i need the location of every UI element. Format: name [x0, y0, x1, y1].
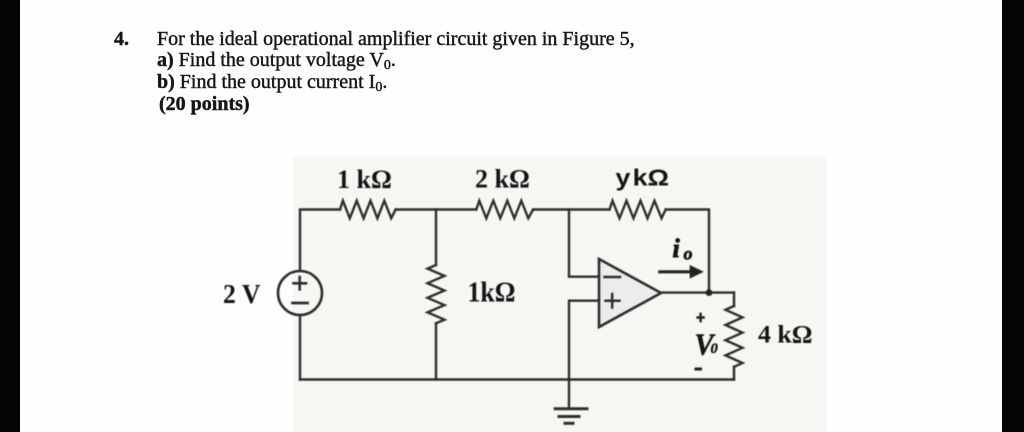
svg-text:4 kΩ: 4 kΩ [758, 320, 813, 349]
wire top junction to vertical resistor [435, 210, 437, 266]
resistor 1kOhm vertical [428, 265, 445, 323]
minus marker inside op-amp [605, 276, 621, 279]
resistor R3 y kOhm horizontal [610, 201, 666, 219]
wire top-left corner to source [300, 210, 340, 272]
problem text [114, 29, 129, 49]
op-amp U1 triangle [599, 259, 661, 327]
resistor R1 1 kOhm horizontal [340, 201, 396, 219]
wire feedback node down to inverting input [569, 210, 599, 277]
label plus of Vo [696, 313, 704, 323]
wire R1 to R2 [396, 208, 477, 210]
svg-text:0: 0 [711, 341, 718, 357]
resistor R2 2 kOhm horizontal [476, 201, 533, 219]
plus sign of source [294, 277, 307, 290]
ground bar 2 [559, 415, 579, 418]
wire R2 to R3 [533, 208, 609, 210]
svg-text:o: o [684, 244, 693, 264]
svg-text:2 kΩ: 2 kΩ [475, 165, 530, 194]
svg-text:1kΩ: 1kΩ [468, 277, 516, 309]
right black bar [1002, 0, 1024, 432]
wire output corner down to 4k resistor [733, 293, 735, 306]
output node junction dot [706, 289, 713, 296]
io current arrow [659, 266, 702, 277]
svg-text:2 V: 2 V [223, 279, 261, 309]
wire noninverting input down to ground wire [569, 301, 599, 380]
plus marker inside op-amp [606, 294, 620, 308]
svg-text:i: i [673, 234, 681, 263]
resistor R4 4 kOhm vertical [726, 306, 743, 367]
svg-text:1 kΩ: 1 kΩ [337, 165, 392, 194]
photo background [293, 157, 826, 432]
label minus of Vo [695, 368, 703, 371]
wire vertical resistor to bottom [435, 323, 437, 379]
wire R3 to top-right corner down to output node [666, 210, 709, 293]
ground stem [568, 380, 570, 409]
wire source to bottom [299, 315, 301, 380]
ground bar 3 [565, 422, 573, 425]
svg-text:y kΩ: y kΩ [616, 165, 670, 191]
wire 4k resistor bottom [733, 367, 735, 380]
left black bar [0, 0, 20, 432]
voltage source V1 circle [278, 271, 322, 315]
ground bar 1 [555, 407, 587, 410]
minus sign of source [293, 302, 308, 305]
bottom wire [300, 378, 734, 380]
output wire from op-amp to 4k resistor [661, 291, 734, 293]
